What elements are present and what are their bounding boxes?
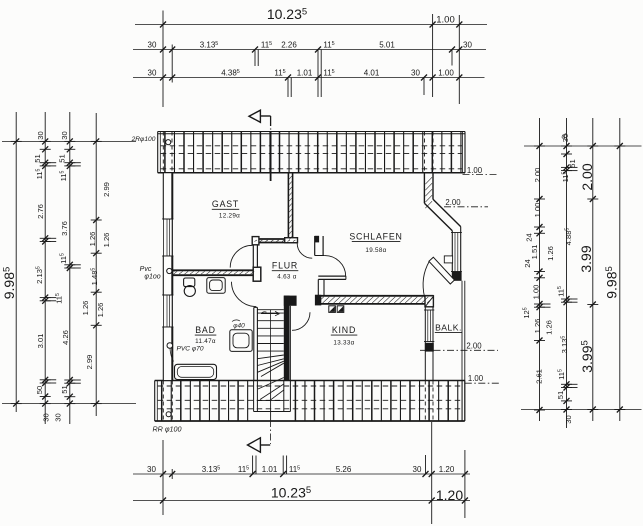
svg-text:1.00: 1.00 bbox=[467, 166, 483, 175]
svg-text:51: 51 bbox=[33, 154, 42, 162]
svg-text:30: 30 bbox=[54, 413, 63, 421]
svg-text:4.26: 4.26 bbox=[61, 330, 70, 345]
svg-text:3.99: 3.99 bbox=[578, 245, 594, 272]
svg-text:30: 30 bbox=[36, 131, 45, 139]
svg-text:3.76: 3.76 bbox=[60, 221, 69, 236]
svg-text:1.26: 1.26 bbox=[88, 232, 97, 247]
svg-text:1.01: 1.01 bbox=[262, 465, 278, 474]
svg-text:2.00: 2.00 bbox=[533, 168, 542, 183]
svg-text:Pvc: Pvc bbox=[140, 266, 152, 273]
svg-text:FLUR: FLUR bbox=[272, 261, 298, 271]
svg-text:30: 30 bbox=[564, 415, 573, 423]
svg-text:1.00: 1.00 bbox=[468, 374, 484, 383]
svg-text:30: 30 bbox=[148, 41, 157, 50]
svg-text:30: 30 bbox=[413, 465, 422, 474]
svg-text:30: 30 bbox=[561, 134, 570, 142]
svg-text:1.26: 1.26 bbox=[102, 233, 111, 248]
svg-text:2Rφ100: 2Rφ100 bbox=[131, 136, 156, 143]
svg-text:BAD: BAD bbox=[195, 325, 216, 335]
svg-text:1.26: 1.26 bbox=[546, 246, 555, 261]
svg-text:1.26: 1.26 bbox=[533, 319, 542, 334]
svg-text:30: 30 bbox=[60, 131, 69, 139]
svg-text:10.235: 10.235 bbox=[267, 6, 307, 22]
svg-text:30: 30 bbox=[463, 41, 472, 50]
svg-text:1.26: 1.26 bbox=[545, 320, 554, 335]
svg-text:1.00: 1.00 bbox=[533, 203, 542, 218]
svg-text:1.00: 1.00 bbox=[438, 69, 454, 78]
svg-text:51: 51 bbox=[568, 159, 577, 167]
svg-text:11.47α: 11.47α bbox=[195, 338, 216, 345]
svg-text:PVC φ70: PVC φ70 bbox=[176, 346, 203, 353]
svg-text:13.33α: 13.33α bbox=[333, 339, 354, 346]
svg-text:1.26: 1.26 bbox=[96, 303, 105, 318]
svg-text:30: 30 bbox=[147, 465, 156, 474]
svg-text:4.01: 4.01 bbox=[364, 69, 380, 78]
svg-text:RR φ100: RR φ100 bbox=[152, 425, 181, 434]
svg-text:30: 30 bbox=[42, 413, 51, 421]
svg-text:1.20: 1.20 bbox=[436, 487, 463, 503]
svg-text:2.00: 2.00 bbox=[466, 342, 482, 351]
svg-text:24: 24 bbox=[525, 233, 534, 241]
svg-text:KIND: KIND bbox=[332, 325, 356, 335]
svg-text:51: 51 bbox=[556, 391, 565, 399]
svg-text:51: 51 bbox=[60, 385, 69, 393]
svg-text:12.29α: 12.29α bbox=[219, 212, 240, 219]
svg-text:24: 24 bbox=[523, 259, 532, 267]
svg-text:2.26: 2.26 bbox=[281, 41, 297, 50]
svg-text:3.01: 3.01 bbox=[36, 334, 45, 349]
svg-text:50: 50 bbox=[35, 386, 44, 394]
svg-text:φ40: φ40 bbox=[233, 323, 245, 330]
svg-text:1.26: 1.26 bbox=[81, 301, 90, 316]
svg-text:1.00: 1.00 bbox=[436, 15, 455, 26]
svg-text:30: 30 bbox=[148, 69, 157, 78]
svg-text:2.61: 2.61 bbox=[535, 369, 544, 384]
svg-text:1.01: 1.01 bbox=[297, 69, 313, 78]
svg-text:51: 51 bbox=[58, 154, 67, 162]
svg-text:2.76: 2.76 bbox=[36, 204, 45, 219]
svg-text:4.63 α: 4.63 α bbox=[277, 274, 297, 281]
svg-text:2.00: 2.00 bbox=[445, 198, 461, 207]
svg-text:1.51: 1.51 bbox=[530, 245, 539, 260]
svg-text:φ1oo: φ1oo bbox=[144, 274, 160, 281]
svg-text:30: 30 bbox=[411, 69, 420, 78]
svg-text:2.99: 2.99 bbox=[85, 355, 94, 370]
svg-text:19.58α: 19.58α bbox=[365, 247, 386, 254]
svg-text:10.235: 10.235 bbox=[271, 485, 311, 501]
svg-text:1.00: 1.00 bbox=[532, 285, 541, 300]
svg-text:1.20: 1.20 bbox=[439, 465, 455, 474]
svg-text:2.99: 2.99 bbox=[102, 182, 111, 197]
svg-text:2.00: 2.00 bbox=[579, 163, 595, 190]
svg-text:5.01: 5.01 bbox=[379, 41, 395, 50]
svg-text:GAST: GAST bbox=[212, 199, 239, 209]
svg-text:BALK.: BALK. bbox=[435, 322, 462, 332]
svg-text:SCHLAFEN: SCHLAFEN bbox=[349, 231, 402, 241]
svg-text:5.26: 5.26 bbox=[336, 465, 352, 474]
